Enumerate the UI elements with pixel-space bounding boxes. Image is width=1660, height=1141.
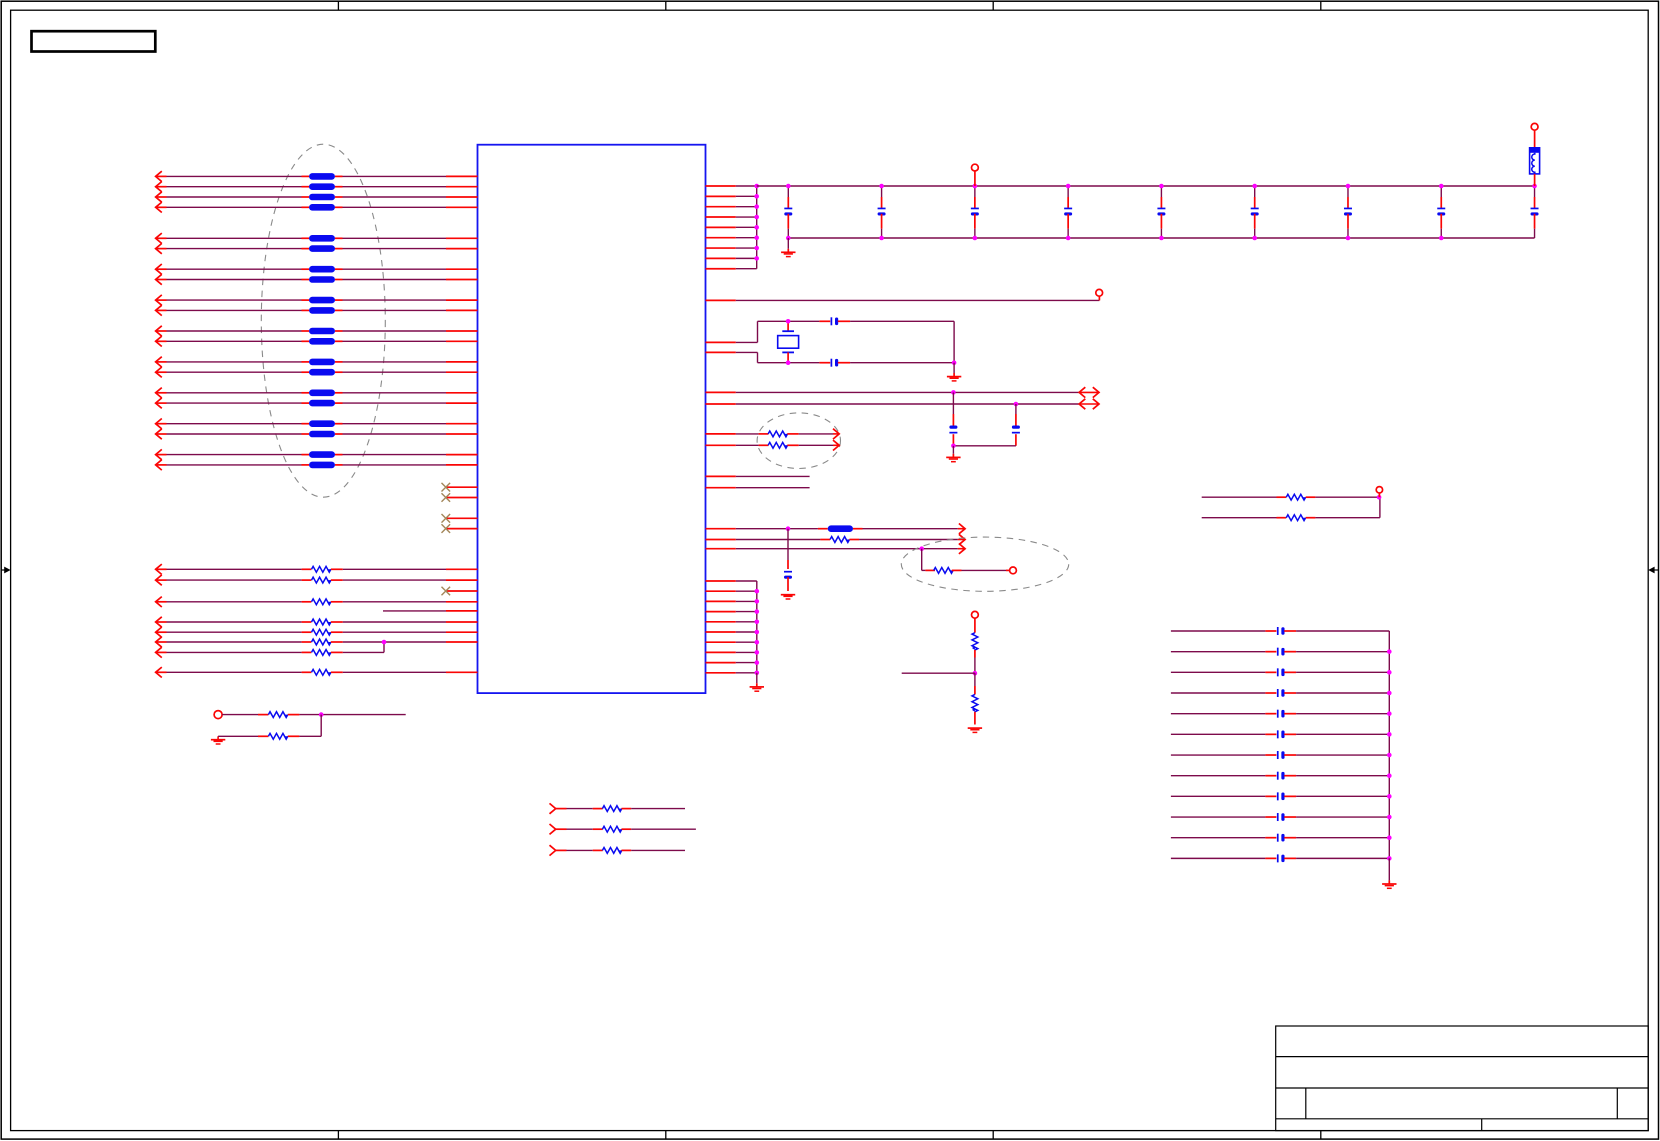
junction term bus 9 [1387, 815, 1392, 820]
capacitor C2 decoupling [878, 186, 886, 238]
wire term line 9 with capacitor C23 [1171, 792, 1389, 800]
border zone tick top 3 [992, 1, 994, 10]
power port VCC mid rail [972, 164, 979, 186]
wire term line 4 with capacitor C18 [1171, 689, 1389, 697]
wire left data 11 with ferrite bead FB11 [156, 326, 478, 336]
wire IC right power pin 3 [706, 206, 757, 208]
wire with resistor R11 [706, 429, 840, 439]
wire term line 8 with capacitor C22 [1171, 772, 1389, 780]
wire gnd bus vertical [756, 581, 758, 673]
capacitor C1 decoupling [784, 186, 792, 238]
wire IC right power pin 8 [706, 257, 757, 259]
wire term line 12 with capacitor C26 [1171, 854, 1389, 862]
wire IC right power pin 4 [706, 216, 757, 218]
no-connect pin left 4 [442, 524, 478, 533]
junction power bus 5 [754, 225, 759, 230]
junction rail bottom 4 [1066, 236, 1071, 241]
wire left data 9 with ferrite bead FB9 [156, 295, 478, 305]
border zone tick top 4 [1320, 1, 1322, 10]
junction caps common [951, 444, 956, 449]
highlight ellipse right 1 [757, 413, 840, 469]
junction rail bottom 3 [973, 236, 978, 241]
junction rail bottom 2 [879, 236, 884, 241]
wire IC right gnd pin 1 [706, 580, 757, 582]
junction power bus 3 [754, 204, 759, 209]
border zone tick bottom 1 [337, 1131, 339, 1140]
wire left ctrl 6 with resistor R6 [156, 637, 478, 647]
junction rail bottom 7 [1346, 236, 1351, 241]
border zone tick bottom 2 [665, 1131, 667, 1140]
wire IC right gnd pin 2 [706, 590, 757, 592]
no-connect pin left mid [442, 587, 478, 596]
ground crystal [947, 363, 961, 381]
wire IC right gnd pin 4 [706, 611, 757, 613]
border zone tick top 1 [337, 1, 339, 10]
wire left ctrl 4 with resistor R4 [156, 617, 478, 627]
junction rail top 6 [1252, 184, 1257, 189]
border mid arrow right [1648, 567, 1658, 574]
wire IC right gnd pin 10 [706, 672, 757, 674]
wire left ctrl 5 with resistor R5 [156, 627, 478, 637]
junction crystal bottom [786, 360, 791, 365]
junction node bottom-left [319, 712, 324, 717]
junction signal tap [919, 546, 924, 551]
junction power bus 1 [754, 184, 759, 189]
wire with resistor R13 [706, 534, 966, 544]
junction rail bottom 5 [1159, 236, 1164, 241]
capacitor C10 crystal top [819, 317, 954, 325]
ground bottom-left [211, 736, 225, 744]
wire left ctrl 1 with resistor R1 [156, 564, 478, 574]
wire IC right power pin 6 [706, 237, 757, 239]
wire IC right power pin 5 [706, 226, 757, 228]
wire IC right gnd pin 6 [706, 631, 757, 633]
junction rail bottom 1 [786, 236, 791, 241]
capacitor C9 decoupling [1531, 186, 1539, 238]
wire term line 3 with capacitor C17 [1171, 668, 1389, 676]
no-connect pin left 2 [442, 493, 478, 502]
border zone tick top 2 [665, 1, 667, 10]
junction gnd bus 4 [755, 620, 760, 625]
title block [1276, 1026, 1649, 1131]
ground gnd bus [750, 673, 764, 691]
wire with resistor R17 to port [1202, 494, 1379, 500]
wire left data 1 with ferrite bead FB1 [156, 171, 478, 181]
port P1 bottom-left [214, 711, 222, 719]
junction rail top 9 [1532, 184, 1537, 189]
wire plain signal [706, 544, 966, 554]
wire term bus vertical [1388, 631, 1390, 858]
junction term bus 8 [1387, 794, 1392, 799]
capacitor C11 crystal bottom [819, 359, 954, 367]
wire left data 5 with ferrite bead FB5 [156, 233, 478, 243]
wire term line 5 with capacitor C19 [1171, 710, 1389, 718]
wire left data 16 with ferrite bead FB16 [156, 398, 478, 408]
wire left short stub [383, 610, 478, 612]
wire left data 18 with ferrite bead FB18 [156, 429, 478, 439]
junction gnd bus 2 [755, 599, 760, 604]
junction term bus 7 [1387, 773, 1392, 778]
wire left data 20 with ferrite bead FB20 [156, 460, 478, 470]
wire data bus y404 [706, 399, 1100, 409]
junction gnd bus 1 [755, 589, 760, 594]
wire IC right gnd pin 9 [706, 662, 757, 664]
junction term bus 11 [1387, 856, 1392, 861]
junction term bus 2 [1387, 670, 1392, 675]
revision box [32, 31, 156, 51]
wire left data 4 with ferrite bead FB4 [156, 202, 478, 212]
wire with resistor R18 joining [1202, 497, 1380, 521]
wire tap to resistor R14 and port P3 [922, 549, 1010, 574]
junction power bus 2 [754, 194, 759, 199]
junction rail top 8 [1439, 184, 1444, 189]
wire term line 10 with capacitor C24 [1171, 813, 1389, 821]
no-connect pin left 1 [442, 483, 478, 492]
port P5 [1376, 487, 1382, 498]
wire with resistor R12 [706, 440, 840, 450]
junction resistor pair [1377, 495, 1382, 500]
wire power rail bottom [788, 237, 1534, 239]
wire left data 8 with ferrite bead FB8 [156, 274, 478, 284]
junction term bus 10 [1387, 835, 1392, 840]
wire power rail top [757, 185, 1535, 187]
wire left data 15 with ferrite bead FB15 [156, 388, 478, 398]
wire with ferrite bead FB21 [706, 524, 966, 534]
wire left data 19 with ferrite bead FB19 [156, 449, 478, 459]
ground term bus [1382, 858, 1396, 888]
wire stub right 1 [706, 475, 810, 477]
wire left data 6 with ferrite bead FB6 [156, 243, 478, 253]
junction power bus 6 [754, 235, 759, 240]
wire left data 13 with ferrite bead FB13 [156, 357, 478, 367]
wire term line 6 with capacitor C20 [1171, 730, 1389, 738]
junction gnd bus 5 [755, 630, 760, 635]
wire from P1 through resistor R9 [222, 712, 406, 718]
wire data bus y392 [706, 387, 1100, 397]
wire XTAL1 pin [706, 321, 820, 342]
junction term bus 6 [1387, 753, 1392, 758]
ground power rail [781, 238, 795, 257]
junction divider mid [973, 671, 978, 676]
wire stub right 2 [706, 487, 810, 489]
wire left data 7 with ferrite bead FB7 [156, 264, 478, 274]
wire term line 11 with capacitor C25 [1171, 834, 1389, 842]
junction rail top 4 [1066, 184, 1071, 189]
capacitor C14 bead filter [781, 529, 795, 599]
junction rail top 2 [879, 184, 884, 189]
resistor R15 divider upper [972, 618, 978, 673]
junction term bus 3 [1387, 691, 1392, 696]
junction term bus 1 [1387, 649, 1392, 654]
junction term bus 4 [1387, 711, 1392, 716]
wire power bus vertical [756, 186, 758, 269]
IC U1 [478, 145, 706, 693]
junction crystal top [786, 319, 791, 324]
capacitor C12 [949, 392, 957, 445]
border zone tick bottom 3 [992, 1131, 994, 1140]
wire term line 1 with capacitor C15 [1171, 627, 1389, 635]
wire XTAL2 pin [706, 352, 820, 362]
junction power bus 4 [754, 215, 759, 220]
port P3 [1010, 567, 1017, 574]
capacitor C8 decoupling [1437, 186, 1445, 238]
port P2 [1096, 289, 1103, 296]
border mid arrow left [1, 567, 10, 574]
junction term bus 5 [1387, 732, 1392, 737]
junction bus cap 2 [1014, 402, 1019, 407]
junction bead branch [786, 526, 791, 531]
port P4 divider top [972, 611, 979, 618]
junction rail top 3 [973, 184, 978, 189]
wire left data 17 with ferrite bead FB17 [156, 419, 478, 429]
crystal Y1 [778, 322, 799, 363]
junction gnd bus 8 [755, 660, 760, 665]
capacitor C5 decoupling [1157, 186, 1165, 238]
junction node left ctrl merge [382, 640, 387, 645]
junction gnd bus 7 [755, 650, 760, 655]
wire IC right power pin 1 [706, 185, 757, 187]
wire bottom mid 3 with resistor R21 [550, 845, 686, 855]
wire IC right gnd pin 5 [706, 621, 757, 623]
resistor R16 divider lower [968, 673, 982, 732]
wire bottom mid 2 with resistor R20 [550, 824, 696, 834]
junction crystal ground [952, 360, 957, 365]
junction rail bottom 6 [1252, 236, 1257, 241]
wire clock out to port P2 [706, 296, 1100, 300]
capacitor C3 decoupling [971, 186, 979, 238]
wire from ground through resistor R10 [218, 715, 321, 740]
wire bottom mid 1 with resistor R19 [550, 803, 686, 813]
junction power bus 7 [754, 246, 759, 251]
wire IC right gnd pin 7 [706, 641, 757, 643]
inductor L1 [1530, 123, 1540, 186]
wire left data 2 with ferrite bead FB2 [156, 182, 478, 192]
junction bus cap 1 [951, 390, 956, 395]
no-connect pin left 3 [442, 514, 478, 523]
wire left ctrl 2 with resistor R2 [156, 575, 478, 585]
wire term line 2 with capacitor C16 [1171, 648, 1389, 656]
junction rail top 1 [786, 184, 791, 189]
ground caps common [946, 446, 960, 462]
junction rail top 5 [1159, 184, 1164, 189]
wire IC right gnd pin 8 [706, 651, 757, 653]
wire IC right power pin 2 [706, 195, 757, 197]
wire term line 7 with capacitor C21 [1171, 751, 1389, 759]
junction gnd bus 6 [755, 640, 760, 645]
border zone tick bottom 4 [1320, 1131, 1322, 1140]
junction gnd bus 3 [755, 609, 760, 614]
wire left ctrl 3 with resistor R3 [156, 597, 478, 607]
wire left data 14 with ferrite bead FB14 [156, 367, 478, 377]
junction power bus 8 [754, 256, 759, 261]
wire left data 12 with ferrite bead FB12 [156, 336, 478, 346]
wire crystal right vertical [953, 321, 955, 362]
wire divider tap left [902, 672, 975, 674]
wire left ctrl 8 with resistor R8 [156, 667, 478, 677]
wire IC right power pin 7 [706, 247, 757, 249]
wire IC right gnd pin 3 [706, 600, 757, 602]
capacitor C13 [953, 404, 1020, 446]
capacitor C7 decoupling [1344, 186, 1352, 238]
wire IC right power pin 9 [706, 268, 757, 270]
junction rail top 7 [1346, 184, 1351, 189]
highlight ellipse right 2 [901, 537, 1068, 591]
capacitor C4 decoupling [1064, 186, 1072, 238]
junction rail bottom 8 [1439, 236, 1444, 241]
capacitor C6 decoupling [1251, 186, 1259, 238]
junction gnd bus last [755, 671, 760, 676]
wire left ctrl 7 with resistor R7 [156, 642, 384, 658]
wire left data 10 with ferrite bead FB10 [156, 305, 478, 315]
highlight ellipse left group [261, 144, 385, 497]
wire left data 3 with ferrite bead FB3 [156, 192, 478, 202]
